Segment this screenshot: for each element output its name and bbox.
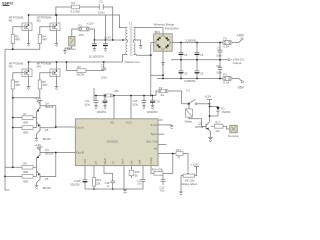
svg-text:6.3A: 6.3A — [223, 45, 229, 49]
svg-text:Out.A: Out.A — [76, 126, 83, 130]
svg-text:0.1/2W: 0.1/2W — [71, 9, 80, 13]
svg-text:SG3525: SG3525 — [107, 140, 118, 144]
svg-text:3,300/50: 3,300/50 — [185, 38, 197, 42]
svg-text:Output: Output — [233, 61, 242, 65]
svg-text:M4: M4 — [37, 65, 41, 69]
svg-text:6.3A: 6.3A — [223, 81, 229, 85]
svg-text:K1: K1 — [186, 88, 190, 92]
svg-text:Osc. Out: Osc. Out — [146, 140, 158, 144]
svg-text:+12V: +12V — [104, 36, 111, 40]
svg-text:100n: 100n — [98, 10, 105, 14]
svg-text:35A/1000V: 35A/1000V — [165, 26, 179, 30]
svg-text:VC: VC — [110, 120, 114, 124]
svg-text:Wheeled Bridge: Wheeled Bridge — [154, 23, 175, 27]
svg-text:BR1: BR1 — [155, 30, 161, 34]
svg-text:-36V: -36V — [237, 86, 245, 90]
svg-text:C1: C1 — [99, 0, 103, 3]
svg-text:+In: +In — [153, 147, 157, 151]
svg-text:M1: M1 — [9, 19, 13, 23]
svg-text:Remote: Remote — [228, 134, 239, 138]
svg-text:4R7: 4R7 — [42, 83, 48, 87]
svg-text:T1: T1 — [129, 22, 133, 26]
svg-text:Relay: Relay — [185, 120, 193, 124]
svg-text:Out.B: Out.B — [76, 150, 83, 154]
svg-text:VCC: VCC — [126, 120, 132, 124]
svg-text:Transformer: Transformer — [124, 60, 140, 64]
svg-text:+36V: +36V — [236, 34, 245, 38]
svg-text:10,000/25V: 10,000/25V — [89, 55, 104, 59]
svg-text:4R7: 4R7 — [42, 38, 48, 42]
svg-text:3,300/50: 3,300/50 — [184, 79, 196, 83]
svg-text:+12V: +12V — [87, 21, 94, 25]
svg-text:4R7: 4R7 — [15, 38, 21, 42]
svg-text:M3: M3 — [9, 65, 13, 69]
svg-text:25A: 25A — [79, 33, 84, 37]
svg-text:S-On: S-On — [151, 123, 158, 127]
svg-text:F2: F2 — [159, 86, 163, 90]
svg-text:R1: R1 — [72, 1, 76, 5]
svg-text:+12V: +12V — [204, 95, 211, 99]
svg-text:F1: F1 — [79, 23, 83, 27]
svg-text:Sync: Sync — [151, 132, 158, 136]
svg-text:F2: F2 — [223, 36, 227, 40]
svg-text:M2: M2 — [37, 19, 41, 23]
svg-text:F3: F3 — [223, 72, 227, 76]
svg-text:4R7: 4R7 — [15, 83, 21, 87]
svg-text:2A: 2A — [161, 93, 165, 97]
